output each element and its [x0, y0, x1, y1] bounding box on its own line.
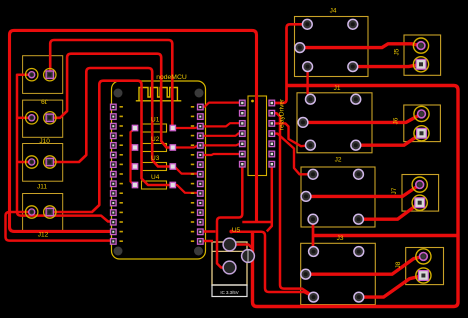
svg-text:J7: J7 [391, 187, 398, 194]
resistor U1 pads [132, 125, 175, 187]
svg-text:J11: J11 [37, 184, 47, 191]
connector J5 outline [404, 35, 441, 75]
wire relayDriver R3 to J1 bot-left [272, 123, 310, 146]
svg-text:U1: U1 [151, 117, 160, 124]
relay J2 pads [301, 169, 363, 224]
connector J9 outline [23, 56, 63, 232]
wire U1 right to pin row [173, 126, 201, 128]
wire relayDriver R2 down right side of U5 to J3 bot-left [272, 113, 314, 296]
wire f1 pin row to relayDriver L1 [200, 103, 242, 107]
relay J1 pads [298, 94, 361, 150]
relay J4 outline [295, 17, 444, 305]
resistor U2 pads [132, 145, 137, 150]
nodeMCU mounting holes [114, 89, 204, 256]
connector J12 pads [26, 206, 57, 218]
resistor U2 body [142, 144, 167, 152]
svg-text:J12: J12 [38, 232, 49, 239]
svg-text:J1: J1 [334, 85, 341, 92]
wire J10 left stub [17, 117, 32, 120]
wire chain stub U3 left [131, 163, 137, 167]
wire J9..J12 left pads chain [17, 75, 111, 222]
connector J6 outline [404, 105, 441, 142]
resistor U1 body [142, 96, 267, 189]
connector J7 pads [412, 177, 427, 210]
connector J10 outline [23, 100, 63, 137]
connector J9 pads [26, 69, 57, 81]
connector J8 outline [406, 248, 444, 285]
wire U2 right to pin row [173, 145, 201, 147]
wire relayDriver L7 down to U5 pad3 [217, 164, 242, 267]
svg-text:relayDriver: relayDriver [279, 98, 286, 130]
wire U1..U4 left pads chain [131, 128, 137, 185]
svg-text:J5: J5 [394, 48, 401, 55]
wire line4: J12 right pad up over to U4 right [50, 81, 173, 212]
connector J11 pads [26, 156, 57, 168]
wire bottom pin stub 2 [200, 240, 213, 243]
module nodeMCU outline [112, 81, 206, 259]
wire relayDriver R4 to J2 top-left [272, 134, 313, 175]
wire J12 left stub [6, 212, 112, 241]
connector J5 pads [413, 38, 428, 72]
wire U5 pad1 to big riser [230, 245, 253, 249]
antenna meander [136, 88, 182, 101]
svg-text:nodeMCU: nodeMCU [156, 74, 187, 81]
connector J12 outline [23, 194, 63, 232]
svg-text:J2: J2 [335, 157, 342, 164]
nodeMCU right pad column [191, 104, 203, 244]
relay J3 outline [301, 243, 376, 304]
wire J1 bot-right to J6 bottom [356, 133, 422, 145]
via dot [229, 230, 233, 234]
wire J3 mid to J8 top [306, 256, 424, 274]
regulator U5 label box [212, 285, 247, 297]
wire J4 mid to J5 top [300, 44, 421, 48]
svg-text:J10: J10 [39, 138, 50, 145]
wire chain stub U2 left [131, 144, 137, 148]
wire bottom pin stub [200, 230, 215, 233]
connector J7 outline [402, 175, 439, 212]
svg-text:J9: J9 [41, 98, 48, 105]
wire big ground loop around relays [253, 86, 459, 307]
relay J2 outline [301, 167, 375, 227]
wire jog under relayDriver [242, 221, 271, 224]
IC relayDriver body [248, 96, 267, 176]
nodeMCU left pad column [111, 104, 123, 244]
wire J3 bot-right to J8 bottom [359, 276, 424, 298]
wire U4 right to pin row diag [173, 185, 201, 193]
wire f5 pin row to relayDriver L5 [200, 144, 242, 146]
wire outer loop: bottom run, left edge, top run, vertical through relayDriver [10, 30, 257, 231]
connector J11 outline [23, 144, 63, 182]
wire line3: J11 right pad up over to U3 right [50, 68, 173, 167]
wire J2 mid to J7 top [306, 185, 420, 197]
svg-text:J8: J8 [395, 261, 402, 268]
wire U5 line via to J3 bot-left [231, 232, 313, 297]
IC relayDriver pin1 dot [251, 100, 254, 103]
svg-text:U3: U3 [151, 155, 160, 162]
svg-text:U4: U4 [151, 174, 160, 181]
connector J8 pads [416, 249, 431, 283]
relay J4 pads [295, 19, 358, 71]
regulator U5 pads [223, 238, 254, 274]
wire relayDriver R7 down to U5 line [267, 164, 272, 231]
wire J4 bot-left to J1 top-left [308, 67, 311, 100]
resistor U4 pads [132, 182, 137, 187]
svg-text:U5: U5 [232, 227, 241, 234]
svg-text:J4: J4 [330, 8, 337, 15]
wire J4 top-left feed riser [272, 24, 307, 103]
wire J11 left stub [17, 161, 32, 164]
svg-text:IC 3.3/5V: IC 3.3/5V [220, 290, 238, 295]
wire J1 mid to J6 top [303, 114, 422, 123]
wire f6 pin row to relayDriver L6 [200, 154, 242, 155]
wire U3 right to pin row diag [173, 167, 201, 174]
svg-text:J3: J3 [337, 235, 344, 242]
resistor U3 body [142, 163, 167, 171]
wire f4 pin row to relayDriver L4 [200, 133, 242, 135]
connector J10 pads [26, 112, 57, 124]
connector J6 pads [414, 106, 429, 141]
IC relayDriver pads [240, 100, 275, 167]
regulator U5 body [212, 242, 247, 285]
wire J2 bot-left to J3 top-left riser [312, 219, 315, 251]
resistor U4 body [142, 181, 167, 189]
wire line2: J10 right pad up over to U2 right [50, 54, 173, 148]
svg-text:U2: U2 [151, 136, 160, 143]
relay J1 outline [297, 93, 372, 153]
wire line1: J9 right pad up over to U1 right [50, 40, 172, 125]
wire f3 pin row to relayDriver L3 [200, 123, 242, 126]
wire J4 bot-right to J5 bottom [353, 64, 421, 66]
wire J2 bot-right to J7 bottom [359, 203, 420, 220]
wire ground run J3 junction to right edge [313, 234, 458, 237]
regulator U5 divider [212, 250, 247, 252]
resistor U3 pads [132, 164, 137, 169]
svg-text:J6: J6 [393, 117, 400, 124]
relay J3 pads [301, 247, 364, 302]
